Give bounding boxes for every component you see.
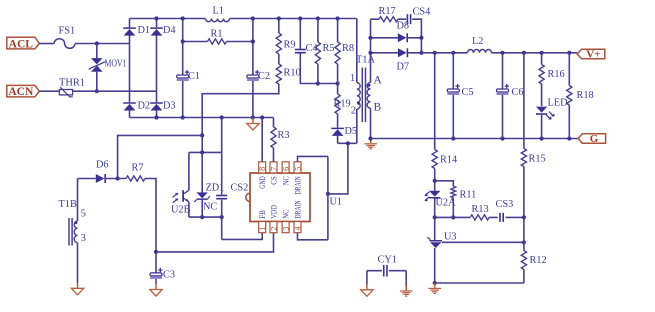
- port ACL: [7, 37, 40, 50]
- wire CY1 left leg: [366, 271, 368, 285]
- resistor R1: [183, 29, 253, 45]
- svg-text:D5: D5: [345, 126, 358, 137]
- diode D7: [368, 48, 423, 72]
- svg-text:R10: R10: [284, 68, 301, 79]
- optocoupler U2A LED: [424, 191, 456, 220]
- svg-text:B: B: [374, 102, 382, 114]
- capacitor C3: [150, 250, 175, 284]
- svg-text:ACL: ACL: [9, 38, 34, 50]
- zener ZD1: [194, 152, 224, 217]
- wire secondary ground rail: [371, 136, 579, 140]
- svg-text:CS4: CS4: [413, 7, 431, 18]
- thermistor THR1: [59, 78, 85, 97]
- svg-text:R9: R9: [284, 40, 296, 51]
- wire bridge left column: [129, 44, 131, 103]
- resistor R19: [334, 84, 351, 128]
- capacitor CS4: [407, 7, 431, 53]
- svg-text:FB: FB: [258, 210, 267, 219]
- resistor R10: [202, 64, 300, 152]
- svg-text:R17: R17: [379, 6, 396, 17]
- transformer T1A core: [362, 68, 365, 123]
- svg-text:D7: D7: [397, 62, 410, 73]
- wire opto box bottom: [189, 215, 224, 219]
- svg-text:D8: D8: [397, 21, 410, 32]
- svg-text:MOV1: MOV1: [105, 59, 127, 70]
- svg-text:VDD: VDD: [269, 205, 278, 219]
- ground U3: [428, 283, 441, 294]
- wire U3 cathode to R12: [442, 240, 526, 244]
- capacitor C5: [447, 53, 473, 139]
- svg-text:T1B: T1B: [59, 199, 77, 210]
- svg-text:5: 5: [293, 167, 302, 171]
- fuse FS1: [54, 26, 75, 49]
- wire primary ground bus: [130, 115, 274, 119]
- svg-text:D6: D6: [96, 160, 109, 171]
- svg-text:2: 2: [351, 106, 356, 117]
- port V+: [577, 49, 605, 61]
- diode D2: [123, 101, 150, 118]
- svg-text:R14: R14: [440, 155, 457, 166]
- svg-text:R7: R7: [132, 163, 144, 174]
- ground T1B: [71, 283, 83, 295]
- svg-text:NC: NC: [281, 210, 290, 219]
- svg-text:3: 3: [282, 227, 291, 231]
- svg-text:A: A: [374, 75, 383, 87]
- capacitor C2: [247, 19, 270, 120]
- svg-text:2: 2: [269, 227, 278, 231]
- svg-text:R15: R15: [529, 154, 546, 165]
- varistor MOV1: [89, 44, 127, 94]
- resistor R3: [271, 118, 290, 162]
- inductor L2: [468, 36, 492, 53]
- capacitor C6: [497, 53, 524, 139]
- svg-text:DRAIN: DRAIN: [293, 176, 302, 194]
- svg-text:NC: NC: [203, 202, 217, 213]
- wire VDD line: [156, 233, 274, 252]
- wire output rail: [408, 51, 577, 55]
- port G: [578, 133, 606, 145]
- wire opto box top: [189, 150, 222, 154]
- transformer T1A primary: [350, 19, 375, 144]
- svg-text:LED: LED: [548, 98, 569, 109]
- svg-text:R12: R12: [530, 255, 547, 266]
- diode D4: [150, 19, 175, 44]
- wire bridge right column: [156, 44, 158, 103]
- capacitor C4: [295, 19, 318, 84]
- diode D5: [331, 126, 357, 143]
- diode D6: [78, 160, 127, 184]
- svg-text:C3: C3: [163, 270, 175, 281]
- wire FB line: [222, 233, 263, 240]
- resistor R15: [521, 53, 545, 218]
- svg-text:CS: CS: [269, 176, 278, 185]
- svg-text:R13: R13: [472, 204, 489, 215]
- svg-text:3: 3: [81, 233, 86, 244]
- op-amp U1 controller chip: [246, 162, 342, 233]
- transformer T1B winding: [59, 179, 86, 283]
- svg-text:D1: D1: [138, 25, 151, 36]
- wire ACL to fuse: [39, 43, 54, 45]
- svg-text:CY1: CY1: [378, 255, 397, 266]
- svg-text:DRAIN: DRAIN: [293, 200, 302, 218]
- svg-text:L1: L1: [213, 6, 224, 17]
- capacitor CS2: [216, 118, 248, 240]
- resistor R14: [432, 53, 457, 191]
- svg-text:D4: D4: [163, 25, 176, 36]
- wire drain pins loop: [298, 156, 328, 239]
- svg-text:U2B: U2B: [171, 205, 191, 216]
- svg-text:L2: L2: [472, 36, 483, 47]
- shunt regulator U3: [427, 217, 456, 283]
- resistor R12: [521, 217, 546, 283]
- svg-text:T1A: T1A: [356, 55, 375, 66]
- wire ACN to bridge: [39, 90, 156, 92]
- wire clamp node: [318, 81, 340, 85]
- diode D3: [150, 101, 175, 118]
- svg-text:V+: V+: [586, 49, 600, 61]
- svg-text:5: 5: [81, 209, 86, 220]
- svg-text:R3: R3: [278, 130, 290, 141]
- svg-text:1: 1: [350, 73, 355, 84]
- ground CY1 left: [361, 284, 373, 296]
- svg-text:CS3: CS3: [496, 199, 514, 210]
- capacitor C1: [177, 19, 200, 120]
- resistor R5: [315, 19, 334, 86]
- wire top bus left: [130, 16, 206, 20]
- ground secondary: [364, 136, 377, 149]
- port ACN: [7, 85, 40, 98]
- svg-text:6: 6: [282, 167, 291, 171]
- wire CY1 right leg: [405, 271, 407, 286]
- capacitor CY1: [367, 255, 406, 277]
- diode D1: [123, 19, 150, 44]
- capacitor CS3: [496, 199, 527, 222]
- transformer T1B core: [69, 218, 72, 246]
- svg-text:R8: R8: [342, 43, 354, 54]
- svg-text:R18: R18: [577, 90, 594, 101]
- svg-text:7: 7: [269, 167, 278, 171]
- svg-text:THR1: THR1: [59, 78, 85, 89]
- svg-text:GND: GND: [258, 176, 267, 189]
- wire drain node: [326, 141, 357, 196]
- svg-text:4: 4: [293, 227, 302, 231]
- svg-text:C6: C6: [512, 87, 524, 98]
- svg-text:C2: C2: [258, 71, 270, 82]
- resistor R17: [371, 6, 407, 22]
- svg-text:8: 8: [258, 167, 267, 171]
- svg-text:D2: D2: [138, 101, 151, 112]
- resistor R11: [435, 181, 477, 220]
- svg-text:NC: NC: [281, 176, 290, 185]
- svg-text:R5: R5: [323, 43, 335, 54]
- LED indicator: [536, 98, 568, 139]
- wire GND pin 8: [261, 118, 263, 162]
- diode D8: [368, 21, 423, 43]
- inductor L1: [206, 6, 230, 22]
- wire top bus right: [230, 16, 357, 20]
- svg-text:G: G: [590, 133, 599, 145]
- transformer T1A secondary: [367, 19, 382, 138]
- svg-text:U1: U1: [330, 197, 343, 208]
- wire D6 branch: [116, 133, 205, 180]
- resistor R18: [567, 53, 594, 139]
- svg-text:C1: C1: [188, 71, 200, 82]
- svg-text:CS2: CS2: [231, 183, 249, 194]
- svg-text:1: 1: [258, 227, 267, 231]
- svg-text:R1: R1: [211, 29, 223, 40]
- ground primary: [247, 118, 259, 130]
- ground CY1 right: [400, 285, 413, 296]
- svg-text:D3: D3: [163, 101, 176, 112]
- svg-text:R16: R16: [548, 69, 565, 80]
- svg-text:R11: R11: [460, 190, 477, 201]
- svg-text:R19: R19: [334, 99, 351, 110]
- svg-text:U3: U3: [444, 232, 457, 243]
- svg-text:ACN: ACN: [8, 86, 34, 98]
- resistor R8: [335, 19, 354, 84]
- resistor R7: [126, 163, 156, 252]
- resistor R13: [435, 204, 498, 220]
- wire fuse to bridge: [75, 41, 130, 45]
- svg-text:FS1: FS1: [59, 26, 76, 37]
- svg-text:C5: C5: [462, 87, 474, 98]
- ground C3: [150, 284, 162, 296]
- resistor R9: [276, 19, 295, 65]
- resistor R16: [539, 53, 565, 106]
- wire feedback bottom: [433, 281, 524, 285]
- optocoupler U2B: [171, 152, 191, 217]
